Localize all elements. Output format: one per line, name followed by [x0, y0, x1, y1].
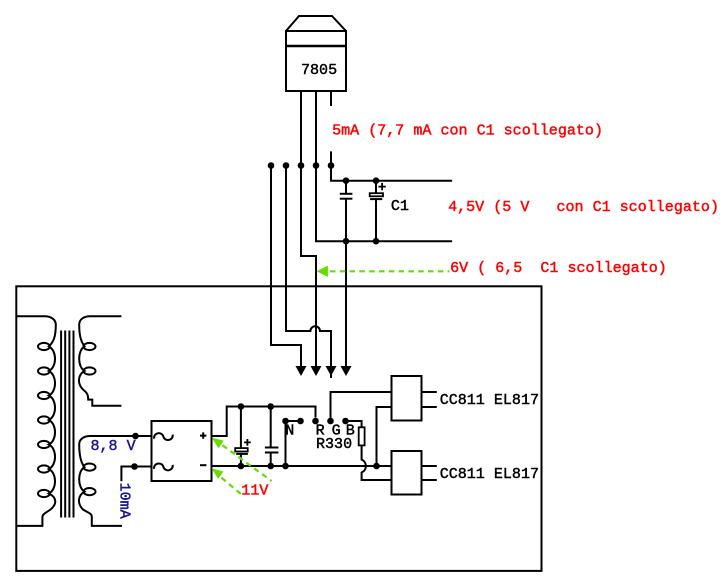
optocoupler U3: [392, 451, 422, 495]
wire upper C1 rail with cut stub toward 7805 pin 3: [331, 151, 452, 180]
minus marking: [200, 464, 206, 466]
connector pins row: [282, 418, 349, 425]
node dots on ground rail: [238, 463, 380, 470]
arrow into board pin G column: [326, 366, 337, 376]
green pointer to 6V node: [330, 270, 449, 272]
capacitor C1 ceramic part: [340, 181, 353, 199]
svg-text:5mA (7,7 mA con C1 scollegato): 5mA (7,7 mA con C1 scollegato): [332, 121, 603, 139]
wire pin link: [286, 420, 301, 422]
pin 3 lead of 7805 (output) cut stub: [330, 91, 332, 106]
bridge rectifier: [152, 421, 212, 481]
wire A leftmost drop into board: [271, 165, 301, 367]
arrow into board pin B column: [341, 366, 352, 376]
wire N pin to ground rail: [285, 421, 287, 466]
arrow into board pin 2 column: [296, 366, 307, 376]
optocoupler U3 right pins: [422, 466, 437, 480]
wire ground rail riser to optocoupler 1: [377, 407, 392, 466]
ac symbol lower: [154, 463, 173, 470]
capacitor C1 electrolytic part: [370, 181, 386, 242]
smoothing capacitor ceramic: [265, 407, 279, 467]
optocoupler U2 right pins: [422, 392, 437, 407]
wire drop from C1 lower rail to arrow: [345, 199, 347, 367]
svg-text:R330: R330: [316, 435, 352, 453]
svg-text:CC811 EL817: CC811 EL817: [440, 391, 539, 409]
svg-text:8,8 V: 8,8 V: [91, 437, 136, 455]
transformer core: [61, 331, 73, 518]
node dots on positive rail: [238, 403, 274, 410]
pin 2 lead of 7805 (common), wire to lower C1 rail: [316, 91, 452, 241]
svg-text:7805: 7805: [301, 61, 337, 79]
wire B pin to resistor: [346, 421, 362, 427]
resistor R330: [359, 427, 365, 445]
svg-text:4,5V (5 V con C1 scollegato): 4,5V (5 V con C1 scollegato): [448, 198, 719, 216]
transformer secondary lower winding: [79, 436, 152, 526]
pin 1 lead of 7805 (input), wire jogging to arrow column: [301, 91, 316, 367]
wire G pin to optocoupler 1: [331, 392, 392, 421]
node row of junction dots: [268, 162, 335, 169]
board outline: [16, 286, 541, 571]
transformer T1 primary winding: [16, 316, 56, 526]
regulator U1 7805 package: [286, 16, 346, 91]
wire bridge minus output ground rail: [212, 465, 392, 467]
svg-text:C1: C1: [391, 197, 409, 215]
wire lower secondary to bridge minus input: [121, 467, 151, 482]
svg-text:CC811 EL817: CC811 EL817: [440, 465, 539, 483]
plus marking: [200, 432, 206, 438]
node dots on C1 rails: [343, 177, 380, 244]
svg-text:N: N: [285, 422, 294, 440]
optocoupler U2: [392, 376, 422, 421]
arrow into board pin R column: [311, 366, 322, 376]
smoothing capacitor electrolytic: [235, 407, 251, 467]
green pointers to bridge outputs: [212, 438, 224, 449]
ac symbol upper: [154, 433, 173, 440]
svg-text:6V ( 6,5 C1 scollegato): 6V ( 6,5 C1 scollegato): [450, 259, 667, 277]
svg-text:11V: 11V: [241, 482, 268, 500]
wire bridge plus output riser to positive rail: [212, 407, 316, 437]
svg-text:10mA: 10mA: [116, 483, 134, 520]
wire resistor to optocoupler 2 with hop over ground rail: [362, 445, 392, 480]
transformer secondary upper winding (unused): [79, 316, 121, 405]
node dots on bridge inputs: [131, 433, 139, 470]
wire B drop with hop over crossing: [286, 165, 331, 378]
